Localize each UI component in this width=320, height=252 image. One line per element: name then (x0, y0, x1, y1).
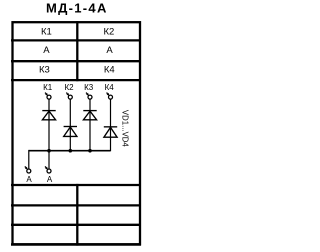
bottom table row line 2 (11, 204, 141, 206)
anode bus wire (29, 150, 111, 152)
diode VD3 (83, 111, 96, 120)
svg-text:К1: К1 (43, 83, 53, 92)
junction dot node 1 (47, 149, 51, 153)
table row line 2 (11, 60, 141, 62)
svg-text:К1: К1 (41, 26, 52, 37)
terminal К4 (107, 93, 113, 100)
svg-text:VD1...VD4: VD1...VD4 (121, 110, 130, 147)
pin table outer frame (13, 22, 141, 244)
svg-text:МД-1-4А: МД-1-4А (46, 0, 108, 15)
diode VD4 (104, 127, 117, 137)
wire bus to terminal А (left) (28, 150, 30, 169)
table row line 1 (11, 39, 141, 41)
terminal К3 (86, 93, 92, 100)
junction dot node 3 (88, 149, 92, 153)
svg-text:А: А (43, 45, 50, 56)
bottom table row line 1 (11, 184, 141, 186)
wire bus to terminal А (right) (48, 151, 50, 169)
wire К2 to bus (69, 99, 71, 151)
svg-text:К4: К4 (105, 83, 115, 92)
wire К3 to bus (89, 99, 91, 151)
wire К4 to bus (110, 99, 112, 151)
bottom table row line 3 (11, 224, 141, 226)
svg-text:К2: К2 (103, 26, 114, 37)
junction dot node 2 (69, 149, 73, 153)
svg-text:А: А (106, 45, 113, 56)
table row line 3 (top table bottom) (11, 79, 141, 81)
svg-text:К4: К4 (104, 65, 115, 76)
svg-text:К3: К3 (84, 83, 94, 92)
terminal К1 (45, 93, 51, 100)
terminal К2 (66, 93, 72, 100)
svg-text:К3: К3 (39, 65, 50, 76)
wire К1 to bus (48, 99, 50, 151)
frame bottom edge (11, 243, 141, 246)
svg-text:К2: К2 (64, 83, 74, 92)
table column divider (bottom) (76, 184, 78, 246)
svg-text:А: А (47, 175, 53, 184)
table column divider (top) (76, 21, 78, 81)
diode VD2 (64, 127, 77, 137)
diode VD1 (42, 111, 55, 120)
terminal А (left) (25, 166, 31, 173)
terminal А (right) (45, 166, 51, 173)
svg-text:А: А (26, 175, 32, 184)
